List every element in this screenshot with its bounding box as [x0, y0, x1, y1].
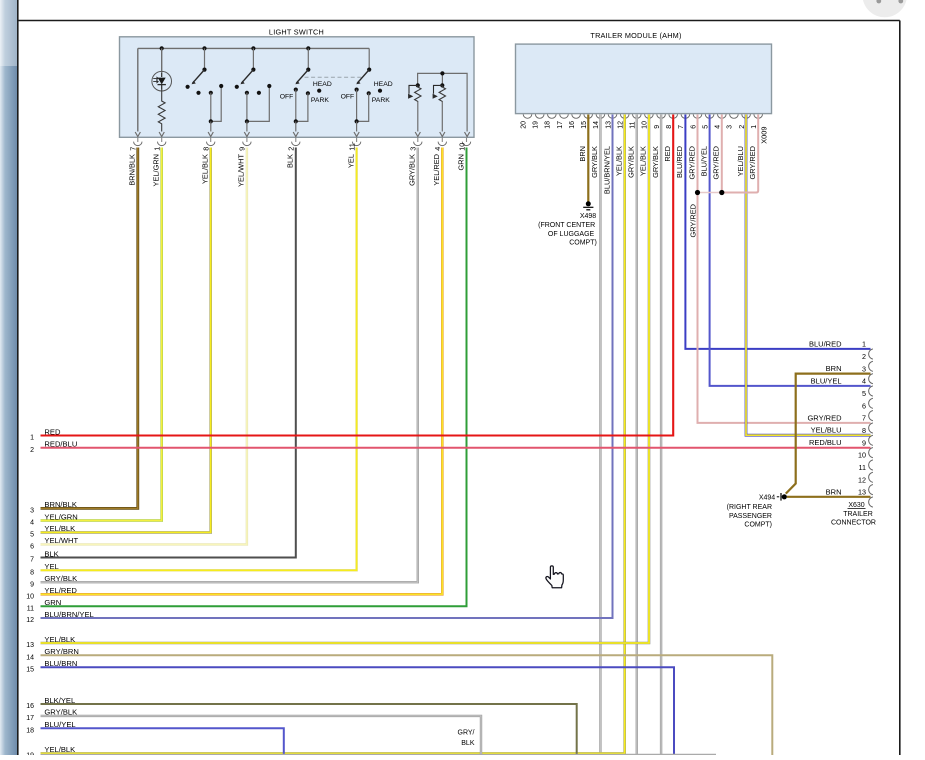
svg-text:8: 8 [30, 570, 34, 577]
svg-text:YEL/GRN: YEL/GRN [152, 154, 161, 186]
wire label BLU/YEL (X630 pin 4) [811, 376, 842, 385]
trailer connector X630 pin 9 [869, 448, 873, 458]
svg-text:18: 18 [26, 728, 34, 735]
svg-text:6: 6 [30, 544, 34, 551]
wire label BLU/BRN/YEL (left stub 12) [44, 610, 93, 619]
trailer module pin 5 connector [705, 114, 714, 118]
svg-text:GRY/RED: GRY/RED [807, 413, 842, 422]
wire label YEL/BLK (module pin 12) [615, 146, 624, 176]
svg-text:BLU/YEL: BLU/YEL [44, 720, 75, 729]
svg-text:BLU/RED: BLU/RED [675, 146, 684, 178]
svg-text:LIGHT SWITCH: LIGHT SWITCH [269, 27, 324, 36]
svg-text:HEAD: HEAD [374, 81, 393, 88]
svg-text:10: 10 [26, 594, 34, 601]
pin number 3 (trailer module) [727, 125, 734, 129]
pin number 5 (trailer module) [702, 125, 709, 129]
wire BLU/BRN/YEL module pin 13 to stub 12 (BLU/BRN/YEL) [41, 115, 613, 619]
wire BLK stub 7 to light switch pin 2 (BLK) [41, 148, 296, 558]
svg-text:HEAD: HEAD [313, 81, 332, 88]
node rheostat bus junction [440, 71, 444, 75]
top-right circular UI button [862, 0, 907, 17]
connector label X630 [848, 502, 866, 509]
svg-text:4: 4 [433, 147, 442, 151]
svg-text:9: 9 [654, 125, 661, 129]
wire label YEL/BLK (left stub 13) [44, 635, 75, 644]
trailer module pin 11 connector [633, 114, 642, 118]
wire label GRY/BLK (module pin 11) [627, 146, 636, 178]
svg-text:18: 18 [545, 121, 552, 129]
pin number 15 (trailer module) [581, 121, 588, 129]
pin number 1 (light switch) [153, 147, 162, 151]
connector label X009 [760, 127, 769, 144]
svg-text:4: 4 [30, 520, 34, 527]
svg-text:BLU/RED: BLU/RED [809, 339, 842, 348]
wire label BLK/YEL (left stub 16) [44, 696, 75, 705]
svg-text:1: 1 [153, 147, 162, 151]
pin number 3 (light switch) [409, 147, 418, 151]
wire label YEL (left stub 8) [44, 562, 58, 571]
svg-text:GRY/BLK: GRY/BLK [651, 146, 660, 178]
svg-text:13: 13 [26, 642, 34, 649]
trailer module pin 2 connector [742, 114, 751, 118]
wire label BLU/RED (module pin 7) [675, 146, 684, 178]
pin number 9 (X630) [862, 438, 866, 447]
wire label GRY/RED (module pin 1) [748, 146, 757, 180]
trailer module pin 14 connector [596, 114, 605, 118]
svg-text:PARK: PARK [372, 97, 390, 104]
svg-text:BLU/BRN/YEL: BLU/BRN/YEL [602, 146, 611, 194]
trailer module (AHM) box [516, 44, 772, 114]
svg-text:YEL/RED: YEL/RED [432, 154, 441, 186]
wire YEL/RED stub 10 to light switch pin 4 (YEL/RED) [41, 148, 443, 595]
svg-text:BLK/YEL: BLK/YEL [44, 696, 75, 705]
svg-text:1: 1 [862, 340, 866, 349]
wire label BRN/BLK (left stub 3) [44, 500, 77, 509]
trailer connector X630 pin 5 [869, 398, 873, 408]
wire label YEL/WHT [237, 154, 246, 187]
wire label BRN (X630 pin 13) [826, 487, 842, 496]
svg-text:16: 16 [26, 703, 34, 710]
wire from bus to pin 7 [137, 48, 139, 131]
wire label YEL/RED [432, 154, 441, 186]
svg-text:BRN/BLK: BRN/BLK [44, 500, 77, 509]
wire label BRN/BLK [128, 154, 137, 186]
resistor R (panel lamp dimmer feed) [158, 90, 165, 132]
svg-text:YEL/WHT: YEL/WHT [237, 154, 246, 187]
svg-text:GRY/BLK: GRY/BLK [44, 708, 77, 717]
svg-text:4: 4 [862, 377, 866, 386]
node 14 number (left stub) [26, 655, 34, 662]
pin number 4 (trailer module) [715, 125, 722, 129]
pin number 19 (trailer module) [533, 121, 540, 129]
wire label YEL/GRN [152, 154, 161, 186]
pin number 18 (trailer module) [545, 121, 552, 129]
wire label BLU/BRN (left stub 15) [44, 659, 77, 668]
trailer module pin 10 connector [645, 114, 654, 118]
pin number 12 (trailer module) [618, 121, 625, 129]
svg-text:YEL/BLK: YEL/BLK [44, 635, 75, 644]
svg-text:X009: X009 [760, 127, 769, 144]
node 16 number (left stub) [26, 703, 34, 710]
svg-text:13: 13 [858, 488, 866, 497]
svg-text:GRY/RED: GRY/RED [748, 146, 757, 180]
svg-text:GRY/BLK: GRY/BLK [590, 146, 599, 178]
trailer connector X630 pin 8 [869, 435, 873, 445]
wire BLU/YEL module pin 5 to trailer connector pin 4 (BLU/YEL) [710, 115, 871, 386]
trailer connector X630 pin 4 [869, 386, 873, 396]
svg-text:GRY/RED: GRY/RED [688, 204, 697, 238]
pin number 4 (X630) [862, 377, 866, 386]
wire YEL/WHT stub 6 to light switch pin 9 (YEL/WHT) [41, 148, 247, 545]
node 1 number (left stub) [30, 435, 34, 442]
wire label RED (left stub 1) [44, 427, 61, 436]
svg-text:GRY/BLK: GRY/BLK [408, 154, 417, 186]
wire label YEL/BLK (module pin 10) [639, 146, 648, 176]
svg-text:1: 1 [30, 435, 34, 442]
node 15 number (left stub) [26, 667, 34, 674]
trailer connector X630 pin 6 [869, 411, 873, 421]
pin number 12 (X630) [858, 475, 866, 484]
node 8 number (left stub) [30, 570, 34, 577]
node 5 number (left stub) [30, 532, 34, 539]
pin number 17 (trailer module) [557, 121, 564, 129]
node 2 number (left stub) [30, 447, 34, 454]
trailer module pin 6 connector [693, 114, 702, 118]
svg-text:CONNECTOR: CONNECTOR [831, 519, 876, 526]
node 6 number (left stub) [30, 544, 34, 551]
rheostat R2 (instrument dimmer) [433, 83, 446, 136]
svg-text:9: 9 [238, 147, 247, 151]
svg-text:BLU/BRN: BLU/BRN [44, 659, 77, 668]
trailer module pin 8 connector [669, 114, 678, 118]
node 13 number (left stub) [26, 642, 34, 649]
svg-text:11: 11 [27, 605, 34, 612]
wire RED module pin 8 to stub 1 (RED) [41, 115, 674, 436]
trailer module pin 16 connector [572, 114, 581, 118]
light switch pin 10 connector [462, 138, 470, 146]
pin number 3 (X630) [862, 364, 866, 373]
svg-text:3: 3 [862, 364, 866, 373]
trailer connector X630 pin 12 [869, 485, 873, 495]
svg-text:BLU/YEL: BLU/YEL [811, 376, 842, 385]
svg-text:BRN: BRN [826, 364, 842, 373]
svg-text:9: 9 [30, 581, 34, 588]
scrollbar thumb [0, 0, 17, 66]
node 12 number (left stub) [26, 617, 34, 624]
light switch pin 11 connector [352, 138, 360, 146]
node 3 number (left stub) [30, 508, 34, 515]
svg-text:14: 14 [26, 655, 34, 662]
svg-text:GRY/RED: GRY/RED [712, 146, 721, 180]
trailer connector X630 pin 1 [869, 349, 873, 359]
trailer connector X630 pin 10 [869, 460, 873, 470]
svg-text:YEL/RED: YEL/RED [44, 586, 77, 595]
svg-text:GRY/BRN: GRY/BRN [44, 647, 78, 656]
light switch pin 8 connector [207, 138, 215, 146]
wire BLU/BRN stub 15 down off page (BLU/BRN) [41, 667, 675, 755]
trailer module pin 13 connector [608, 114, 617, 118]
wire YEL/BLU module pin 2 to trailer connector pin 8 (YEL/BLU) [746, 115, 871, 436]
light switch pin 2 connector [292, 138, 300, 146]
svg-text:YEL: YEL [346, 154, 355, 168]
svg-text:3: 3 [409, 147, 418, 151]
wire YEL/BLK module pin 10 to stub 13 (YEL/BLK) [41, 115, 650, 644]
svg-text:6: 6 [862, 401, 866, 410]
pin number 2 (light switch) [287, 147, 296, 151]
trailer module pin 9 connector [657, 114, 666, 118]
svg-text:BRN/BLK: BRN/BLK [128, 154, 137, 186]
wire junction link GRY/RED [698, 192, 722, 194]
svg-text:YEL/BLK: YEL/BLK [44, 745, 75, 754]
pin number 5 (X630) [862, 389, 866, 398]
svg-text:GRY/BLK: GRY/BLK [44, 574, 77, 583]
frame top border [18, 20, 900, 22]
wire bus to LED [161, 48, 163, 72]
wire label YEL [346, 154, 355, 168]
svg-text:1: 1 [751, 125, 758, 129]
svg-text:GRY/BLK: GRY/BLK [627, 146, 636, 178]
light switch pin 1 connector [158, 138, 166, 146]
trailer connector X630 pin 11 [869, 472, 873, 482]
svg-text:15: 15 [581, 121, 588, 129]
light switch pin 4 connector [438, 138, 446, 146]
pin number 7 (light switch) [129, 147, 138, 151]
connector name text [831, 511, 876, 527]
trailer connector X630 pin 13 [869, 497, 873, 507]
wire BRN/BLK stub 3 to light switch pin 7 (BRN/BLK) [41, 148, 138, 509]
svg-text:GRN: GRN [44, 598, 61, 607]
svg-text:YEL/BLU: YEL/BLU [811, 426, 842, 435]
wire label GRY/BLK (left stub 9) [44, 574, 77, 583]
trailer module pin 12 connector [620, 114, 629, 118]
wire BRN trailer connector pin 3 via X494 (BRN) [786, 374, 871, 494]
node 7 number (left stub) [30, 557, 34, 564]
wire label BLU/YEL (left stub 18) [44, 720, 75, 729]
svg-text:YEL: YEL [44, 562, 58, 571]
svg-text:8: 8 [202, 147, 211, 151]
wire GRY/BLK stub 17 down off page (GRY/BLK) [41, 716, 482, 755]
wire BLU/RED module pin 7 to trailer connector pin 1 (BLU/RED) [685, 115, 870, 349]
svg-text:YEL/BLK: YEL/BLK [201, 154, 210, 184]
mechanical coupling (dashed link S3-S4) [305, 76, 363, 78]
wire label RED/BLU (X630 pin 9) [809, 438, 842, 447]
wire YEL stub 8 to light switch pin 11 (YEL) [41, 148, 357, 571]
wire label BLK (left stub 7) [44, 549, 58, 558]
wire label YEL/GRN (left stub 4) [44, 512, 77, 521]
svg-text:YEL/WHT: YEL/WHT [44, 536, 78, 545]
wire label YEL/BLU (module pin 2) [736, 146, 745, 176]
svg-text:8: 8 [666, 125, 673, 129]
node 10 number (left stub) [26, 594, 34, 601]
svg-text:14: 14 [593, 121, 600, 129]
svg-text:YEL/GRN: YEL/GRN [44, 512, 77, 521]
switch contact S2 (headlight switch section B) [235, 46, 272, 136]
svg-text:11: 11 [859, 463, 866, 472]
rheostat R1 (instrument dimmer) [408, 83, 421, 136]
wire label BLK [286, 154, 295, 168]
wire label GRY/RED (below junction) [688, 204, 697, 238]
svg-text:2: 2 [287, 147, 296, 151]
trailer connector X630 pin 3 [869, 374, 873, 384]
wire BRN module pin 15 to ground X498 (BRN) [587, 115, 589, 202]
wire BLK/YEL stub 16 down off page (BLK/YEL) [41, 704, 577, 755]
svg-text:13: 13 [605, 121, 612, 129]
rheostat bus wire [418, 73, 468, 131]
svg-text:COMPT): COMPT) [569, 240, 597, 247]
svg-text:PARK: PARK [311, 97, 329, 104]
svg-text:RED/BLU: RED/BLU [44, 440, 77, 449]
svg-text:12: 12 [26, 617, 34, 624]
frame left border [17, 0, 19, 755]
wire label GRY/RED (X630 pin 7) [807, 413, 842, 422]
pin number 7 (trailer module) [678, 125, 685, 129]
svg-text:17: 17 [26, 715, 34, 722]
wire GRY/BLK stub 9 to light switch pin 3 (GRY/BLK) [41, 148, 418, 583]
wire label BRN (module pin 15) [578, 146, 587, 162]
wire label GRY/BRN (left stub 14) [44, 647, 78, 656]
svg-text:3: 3 [727, 125, 734, 129]
wire RED/BLU stub 2 to trailer connector pin 9 (RED/BLU) [41, 447, 871, 449]
wire label RED (module pin 8) [663, 146, 672, 162]
wire label GRY/BLK (module pin 14) [590, 146, 599, 178]
pin number 8 (light switch) [202, 147, 211, 151]
svg-text:BRN: BRN [826, 487, 842, 496]
svg-text:X498: X498 [580, 213, 596, 220]
svg-text:2: 2 [30, 447, 34, 454]
svg-text:11: 11 [630, 121, 637, 128]
wire GRY/RED module pin 1 to junction (GRY/RED) [722, 115, 758, 193]
wire YEL/GRN stub 4 to light switch pin 1 (YEL/GRN) [41, 148, 162, 521]
svg-text:YEL/BLU: YEL/BLU [736, 146, 745, 176]
pin number 11 (trailer module) [630, 121, 637, 128]
pin number 1 (trailer module) [751, 125, 758, 129]
svg-text:BRN: BRN [578, 146, 587, 162]
svg-text:2: 2 [862, 352, 866, 361]
trailer connector X630 pin 7 [869, 423, 873, 433]
svg-text:GRY/RED: GRY/RED [687, 146, 696, 180]
trailer module pin 7 connector [681, 114, 690, 118]
wire label YEL/BLK (left stub 19) [44, 745, 75, 754]
node 17 number (left stub) [26, 715, 34, 722]
pin number 11 (light switch) [347, 143, 356, 151]
svg-text:YEL/BLK: YEL/BLK [44, 524, 75, 533]
wire label BLU/RED (X630 pin 1) [809, 339, 842, 348]
wire GRY/BLK module pin 11 down off page (GRY/BLK) [636, 115, 638, 756]
svg-text:OFF: OFF [341, 93, 355, 100]
svg-text:(FRONT CENTER: (FRONT CENTER [538, 222, 595, 229]
node 19 number (left stub) [26, 753, 34, 760]
svg-text:PASSENGER: PASSENGER [729, 513, 772, 520]
pin number 8 (trailer module) [666, 125, 673, 129]
wire GRY/BLK partial at bottom edge [41, 754, 717, 756]
svg-text:TRAILER: TRAILER [843, 511, 873, 518]
LED indicator lamp [152, 71, 172, 91]
svg-text:YEL/BLK: YEL/BLK [639, 146, 648, 176]
pin number 9 (trailer module) [654, 125, 661, 129]
trailer module pin 4 connector [718, 114, 727, 118]
wire GRN stub 11 to light switch pin 10 (GRN) [41, 148, 467, 607]
light switch pin 7 connector [134, 138, 142, 146]
svg-text:5: 5 [862, 389, 866, 398]
svg-text:BLK: BLK [461, 740, 475, 747]
pin number 4 (light switch) [433, 147, 442, 151]
node 11 number (left stub) [27, 605, 34, 612]
trailer module pin 18 connector [548, 114, 557, 118]
pin number 14 (trailer module) [593, 121, 600, 129]
trailer module pin 15 connector [584, 114, 593, 118]
svg-text:OFF: OFF [280, 93, 294, 100]
wire label GRY/BLK [408, 154, 417, 186]
wire GRY/BLK module pin 9 down off page (GRY/BLK) [660, 115, 662, 756]
pin number 2 (X630) [862, 352, 866, 361]
wire label GRY/BLK (stub 17 continuation) [458, 730, 475, 748]
wire label GRY/RED (module pin 6) [687, 146, 696, 180]
svg-text:GRY/: GRY/ [458, 730, 475, 737]
svg-text:7: 7 [678, 125, 685, 129]
svg-text:15: 15 [26, 667, 34, 674]
wire label GRY/BLK (left stub 17) [44, 708, 77, 717]
wire GRY/BRN stub 14 down off page (GRY/BRN) [41, 655, 773, 755]
node 4 number (left stub) [30, 520, 34, 527]
pin number 13 (trailer module) [605, 121, 612, 129]
wire label YEL/BLK (left stub 5) [44, 524, 75, 533]
node bus-LED junction [160, 46, 164, 50]
pin number 6 (X630) [862, 401, 866, 410]
svg-text:6: 6 [690, 125, 697, 129]
wire GRY/RED module pin 6 to trailer connector pin 7 (GRY/RED) [698, 115, 871, 423]
ground X498 [583, 201, 593, 210]
svg-text:9: 9 [862, 438, 866, 447]
svg-text:5: 5 [30, 532, 34, 539]
wire bus corner to switch S4 [368, 48, 370, 69]
wire label GRY/BLK (module pin 9) [651, 146, 660, 178]
svg-text:10: 10 [858, 451, 866, 460]
frame right border [899, 21, 901, 756]
wire YEL/BLK stub 5 to light switch pin 8 (YEL/BLK) [41, 148, 211, 533]
svg-text:5: 5 [702, 125, 709, 129]
svg-text:TRAILER MODULE (AHM): TRAILER MODULE (AHM) [590, 31, 681, 40]
wire GRY/RED module pin 4 to junction (GRY/RED) [721, 115, 723, 193]
trailer module pin 20 connector [523, 114, 532, 118]
pin number 16 (trailer module) [569, 121, 576, 129]
svg-text:YEL/BLK: YEL/BLK [615, 146, 624, 176]
svg-text:3: 3 [30, 508, 34, 515]
pin number 2 (trailer module) [739, 125, 746, 129]
pin number 9 (light switch) [238, 147, 247, 151]
junction dot GRY/RED pins 4-1 [719, 190, 724, 195]
inline connector X494 [777, 493, 787, 501]
node 9 number (left stub) [30, 581, 34, 588]
pin number 1 (X630) [862, 340, 866, 349]
svg-text:7: 7 [862, 414, 866, 423]
svg-text:20: 20 [520, 121, 527, 129]
svg-text:RED/BLU: RED/BLU [809, 438, 842, 447]
svg-text:16: 16 [569, 121, 576, 129]
svg-text:8: 8 [862, 426, 866, 435]
wire label YEL/RED (left stub 10) [44, 586, 77, 595]
wire label GRN (left stub 11) [44, 598, 61, 607]
wire YEL/BLK module pin 12 to stub 19 (YEL/BLK) [41, 115, 625, 754]
wire label GRN [456, 154, 465, 170]
svg-text:10: 10 [457, 143, 466, 151]
svg-text:4: 4 [715, 125, 722, 129]
light switch pin 3 connector [414, 138, 422, 146]
pin number 20 (trailer module) [520, 121, 527, 129]
pin number 11 (X630) [859, 463, 866, 472]
trailer module pin 1 connector [754, 114, 763, 118]
wire label GRY/RED (module pin 4) [712, 146, 721, 180]
svg-text:RED: RED [663, 146, 672, 162]
